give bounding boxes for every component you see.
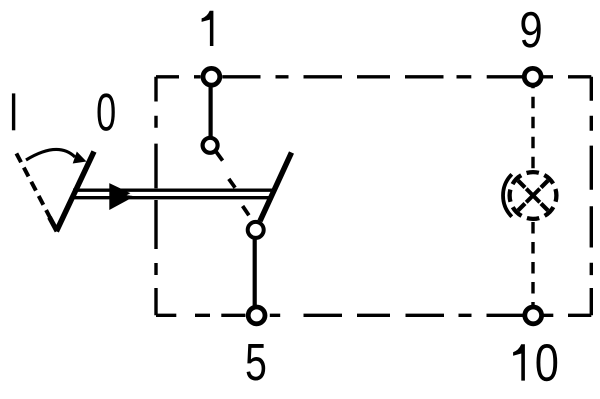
switch housing outline bottom edge (dash-dot) (156, 314, 591, 317)
terminal 9 circle (524, 68, 541, 85)
actuation direction arc (26, 149, 75, 160)
wire lamp to terminal 10 (dashed) (531, 222, 534, 315)
rocker lever dashed (position I) (16, 153, 50, 217)
lamp spoke NE (541, 181, 548, 188)
switch housing outline right edge (dash-dot) (590, 77, 593, 315)
label I (switch position) (12, 93, 15, 130)
lamp spoke NW (518, 181, 525, 188)
label 9 (terminal) (521, 12, 540, 48)
label 10 digit 0 (536, 344, 557, 381)
label 0 (switch position) (97, 93, 114, 130)
switch housing outline left edge (dash-dot) (154, 77, 157, 315)
lamp center cross stroke a (526, 189, 540, 203)
contact bridge dashed segment c (243, 206, 249, 215)
contact lever (moving) (260, 153, 292, 222)
actuation direction arc arrowhead (73, 152, 87, 164)
switch housing outline top edge (dash-dot) (156, 75, 591, 78)
terminal 1 circle (203, 68, 220, 85)
pivot contact circle (248, 222, 264, 238)
lamp spoke SW (518, 204, 525, 211)
rocker lever tip stub (50, 217, 58, 231)
actuator linkage double line top (73, 189, 276, 192)
lamp illumination arc (503, 174, 512, 216)
label 5 (terminal) (247, 344, 266, 380)
wire terminal 1 to fixed contact (209, 77, 213, 140)
wire terminal 9 to lamp (dashed) (531, 77, 534, 169)
contact bridge dashed segment a (216, 152, 222, 161)
contact bridge dashed segment b (229, 179, 235, 188)
actuator linkage double line bottom (70, 196, 273, 199)
lamp center cross stroke b (526, 189, 540, 203)
fixed contact circle (203, 138, 218, 153)
label 1 (terminal) (202, 11, 214, 46)
wire pivot contact to terminal 5 (253, 230, 257, 315)
label 10 digit 1 (513, 344, 525, 380)
terminal 5 circle (248, 307, 265, 324)
lamp spoke SE (541, 204, 548, 211)
lamp dashed circle (510, 172, 557, 219)
terminal 10 circle (525, 307, 542, 324)
actuator linkage arrowhead with notch (109, 183, 132, 210)
rocker lever solid (position 0) (56, 152, 94, 232)
